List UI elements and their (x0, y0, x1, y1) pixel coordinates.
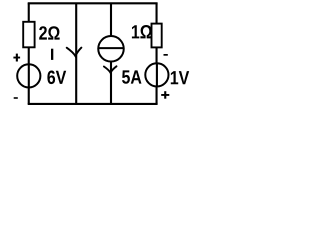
label 1ohm (132, 25, 152, 38)
resistor R2 1ohm (152, 24, 162, 48)
label I (51, 49, 53, 60)
voltage source V1 6V (17, 64, 40, 87)
plus sign left (13, 57, 20, 59)
label 6V (47, 70, 66, 84)
plus sign right (161, 94, 169, 96)
minus sign right (164, 54, 168, 56)
current source I1 5A (98, 36, 124, 62)
wire left branch (28, 3, 30, 104)
label 2ohm (39, 26, 59, 39)
label 1V (171, 71, 189, 84)
voltage source V2 1V (145, 63, 168, 86)
resistor R1 2ohm (23, 22, 34, 48)
minus sign left (14, 97, 18, 99)
wire middle branch (110, 3, 112, 104)
label 5A (122, 70, 141, 83)
wire top (28, 2, 158, 4)
wire right branch (156, 3, 158, 104)
current arrow 5A (104, 66, 117, 73)
wire bottom (28, 103, 158, 105)
current arrow I (67, 48, 82, 57)
wire middle-left branch (75, 3, 77, 104)
